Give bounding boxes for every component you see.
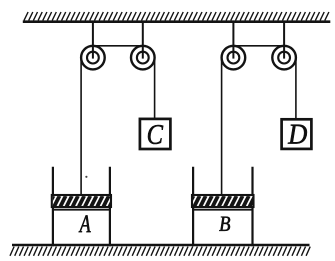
ceiling line xyxy=(23,20,331,23)
pulley P1 xyxy=(81,46,105,70)
piston in container B xyxy=(188,195,255,207)
weight C xyxy=(140,119,171,149)
label B xyxy=(219,217,230,231)
string pulley P2 to weight C xyxy=(154,58,156,120)
string pulley P4 to weight D xyxy=(295,58,297,121)
gas surface line A xyxy=(53,209,111,211)
pulley support P4 xyxy=(283,22,285,59)
ceiling hatch xyxy=(24,12,329,20)
container A left wall xyxy=(52,167,54,247)
string pulley P3 to piston B xyxy=(221,58,223,197)
pulley support P1 xyxy=(92,22,94,59)
pulley support P3 xyxy=(232,22,234,59)
weight D xyxy=(282,119,312,149)
string over left pulley pair xyxy=(93,45,143,47)
pulley P3 xyxy=(222,46,246,70)
scan speck xyxy=(85,176,87,178)
container B right wall xyxy=(251,167,253,246)
container B left wall xyxy=(192,167,194,246)
container A right wall xyxy=(109,167,111,247)
floor hatch xyxy=(10,247,310,256)
piston in container A xyxy=(48,195,115,207)
gas surface line B xyxy=(193,209,253,211)
string over right pulley pair xyxy=(233,45,284,47)
pulley support P2 xyxy=(142,22,144,59)
string pulley P1 to piston A xyxy=(80,58,82,197)
floor line xyxy=(12,244,310,247)
label A xyxy=(79,215,91,232)
pulley P4 xyxy=(272,46,296,70)
pulley P2 xyxy=(131,46,155,70)
